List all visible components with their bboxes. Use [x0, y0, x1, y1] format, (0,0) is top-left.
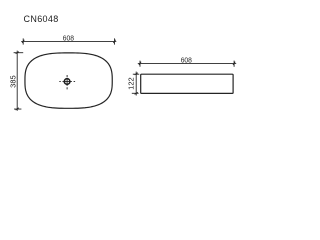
dimension 608 (side view) — [138, 61, 236, 67]
svg-text:608: 608 — [63, 33, 74, 42]
drain hole symbol — [59, 75, 75, 89]
svg-text:608: 608 — [181, 55, 192, 64]
dimension 122 (side view height) — [132, 72, 139, 96]
basin top view outline — [25, 53, 112, 108]
dimension 385 (top view height) — [14, 51, 24, 111]
svg-text:CN6048: CN6048 — [24, 14, 59, 24]
dimension 608 (top view) — [21, 38, 116, 44]
basin side view outline — [141, 74, 233, 93]
svg-text:122: 122 — [127, 77, 136, 90]
svg-text:385: 385 — [8, 75, 17, 88]
